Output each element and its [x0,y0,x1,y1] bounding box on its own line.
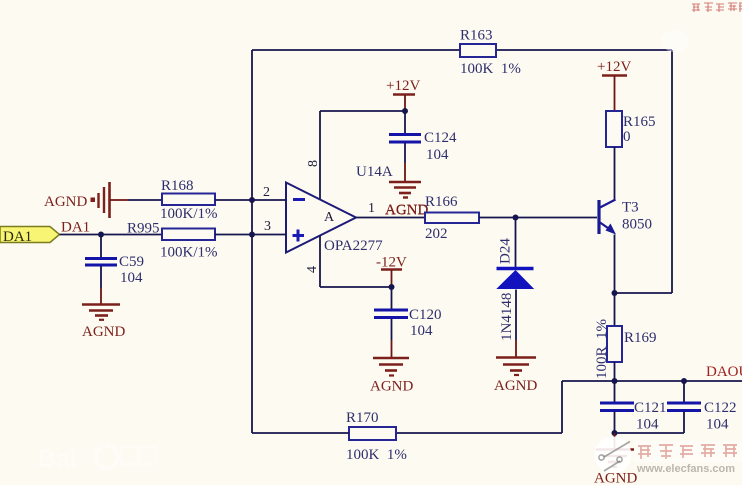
svg-text:1: 1 [368,201,375,216]
svg-text:104: 104 [706,417,729,433]
svg-text:-12V: -12V [376,255,407,271]
svg-text:R166: R166 [425,194,458,210]
wire D24 to ground [515,290,517,341]
transistor T3 8050 [599,200,652,235]
ground AGND sideways (left input) [44,182,128,218]
svg-text:C122: C122 [704,400,737,416]
svg-text:100K/1%: 100K/1% [160,206,218,222]
wire bottom node to C122 bottom [615,432,685,434]
svg-text:R163: R163 [460,28,493,44]
ground AGND (C59) [82,305,125,341]
svg-text:AGND: AGND [82,324,125,340]
wire -12V node to C120 [391,287,393,309]
wire R995 to pin3 [215,234,286,236]
resistor R995 [127,221,218,261]
wire C121 to bottom node [614,411,616,433]
svg-text:R169: R169 [624,330,657,346]
wire DAOUT node left to feedback corner [562,380,615,382]
watermark faint smudge (top right) [661,30,689,52]
svg-text:C59: C59 [119,254,144,270]
svg-text:R995: R995 [127,221,160,237]
svg-text:C121: C121 [634,400,667,416]
svg-text:C124: C124 [424,130,457,146]
node +12V junction [402,108,408,114]
svg-text:104: 104 [636,417,659,433]
wire bottom node to ground [614,433,616,449]
wire +12V node down to C124 [404,111,406,134]
svg-text:8050: 8050 [622,217,652,233]
node emitter junction [612,290,618,296]
wire node to C121 [614,381,616,402]
wire DAOUT node right [615,380,742,382]
wire left feedback vertical [251,50,253,433]
power +12V (op-amp) [386,78,420,111]
wire pin8 vertical [319,111,321,200]
svg-text:R168: R168 [161,178,194,194]
resistor R168 [160,178,218,222]
node output junction [513,215,519,221]
svg-text:202: 202 [425,226,448,242]
node DAOUT junction [612,378,618,384]
svg-text:100K 1%: 100K 1% [346,447,407,463]
svg-text:R165: R165 [623,114,656,130]
resistor R169 [594,319,657,379]
node C122 junction [681,378,687,384]
wire R166 to base node [479,217,597,219]
capacitor C120 [374,307,442,339]
svg-text:DA1: DA1 [61,220,90,236]
svg-text:104: 104 [426,147,449,163]
node pin2 junction [249,197,255,203]
resistor R165 [606,111,656,147]
wire emitter node to R169 [614,293,616,326]
wire R165 to collector [614,147,616,200]
svg-text:100R 1%: 100R 1% [594,319,610,379]
svg-text:DAOU: DAOU [706,364,742,380]
svg-text:8: 8 [306,160,321,167]
wire top feedback horizontal left of R163 [252,49,460,51]
svg-text:0: 0 [623,129,631,145]
wire DA1 node to C59 [100,235,102,258]
wire C122 node to C122 [683,381,685,402]
svg-text:AGND: AGND [370,379,413,395]
ground AGND (C124) [385,182,428,218]
capacitor C122 [667,400,737,433]
svg-text:D24: D24 [498,238,514,264]
watermark baidu logo [38,438,156,473]
svg-text:AGND: AGND [44,194,87,210]
node -12V junction [389,284,395,290]
wire pin4 vertical [319,236,321,288]
node DA1 junction [98,232,104,238]
port DA1 [0,227,60,246]
svg-text:U14A: U14A [356,164,393,180]
svg-text:R170: R170 [346,410,379,426]
watermark elecfans logo [595,437,632,474]
svg-text:104: 104 [410,323,433,339]
wire C59 to ground [100,266,102,288]
svg-text:DA1: DA1 [3,229,32,245]
svg-text:100K 1%: 100K 1% [460,61,521,77]
wire emitter vertical [614,235,616,294]
wire op-amp pin8 to +12V node [320,110,405,112]
power +12V (right) [597,59,631,111]
svg-text:1N4148: 1N4148 [499,293,515,341]
resistor R166 [425,194,479,242]
svg-text:www.elecfans.com: www.elecfans.com [636,463,735,475]
svg-text:3: 3 [264,219,271,234]
watermark elecfans text [634,441,742,462]
ground AGND (C120) [370,358,413,395]
svg-text:2: 2 [263,185,270,200]
svg-text:+12V: +12V [597,59,631,75]
wire R169 to DAOUT node [614,362,616,381]
wire ground to R168 [128,199,162,201]
svg-text:OPA2277: OPA2277 [324,238,383,254]
svg-text:Bai: Bai [38,445,77,473]
resistor R163 [460,28,521,78]
wire op-amp output to R166 [356,217,425,219]
ground AGND (bottom right) [596,450,634,468]
wire port to R995 [60,234,163,236]
watermark elecfans top-right text [692,3,742,12]
wire emitter node to right trunk [615,292,673,294]
node bottom junction [612,430,618,436]
wire R170 to left vertical [252,432,349,434]
wire right trunk vertical [671,50,673,293]
wire bottom feedback to R170 [396,432,562,434]
wire R168 to pin2 [215,199,286,201]
svg-text:104: 104 [120,270,143,286]
op-amp U14A [263,160,393,273]
wire C120 to ground [391,319,393,340]
wire C122 bottom vertical [683,411,685,433]
wire top feedback horizontal right of R163 [496,49,672,51]
node pin3 junction [249,232,255,238]
svg-text:T3: T3 [622,200,639,216]
capacitor C59 [85,254,144,286]
wire bottom feedback corner vertical [561,381,563,433]
svg-text:4: 4 [305,266,320,273]
svg-text:AGND: AGND [385,203,428,219]
ground AGND (D24) [494,358,537,395]
wire node to D24 [515,218,517,268]
resistor R170 [346,410,407,463]
wire pin4 to -12V node [320,286,391,288]
svg-text:AGND: AGND [594,471,637,485]
svg-text:+12V: +12V [386,78,420,94]
power -12V [376,255,407,288]
svg-text:AGND: AGND [494,378,537,394]
wire C124 to ground [404,143,406,163]
svg-text:A: A [324,210,335,225]
capacitor C124 [389,130,457,163]
diode D24 1N4148 [497,238,534,341]
capacitor C121 [600,400,667,433]
svg-text:C120: C120 [409,307,442,323]
svg-text:100K/1%: 100K/1% [160,245,218,261]
